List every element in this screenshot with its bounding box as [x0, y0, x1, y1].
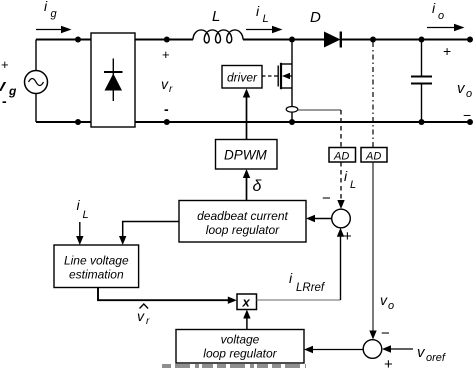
svg-text:−: − — [322, 190, 331, 207]
svg-text:L: L — [83, 209, 89, 221]
node cap top dot — [419, 37, 425, 43]
wire iLRref multiplier to summer — [257, 228, 345, 300]
wire top rail inductor-to-diode — [243, 39, 324, 41]
svg-text:−: − — [463, 107, 471, 123]
label vo plus right — [443, 43, 451, 59]
label iL feedback — [344, 168, 356, 191]
svg-text:v: v — [161, 76, 169, 92]
label voref — [417, 344, 446, 364]
voltage loop regulator U6 — [176, 330, 304, 364]
svg-text:o: o — [388, 300, 394, 312]
label vr minus — [164, 101, 169, 117]
current sensor — [286, 107, 298, 113]
node junction dot top-left — [75, 37, 81, 43]
wire top rail diode-to-right — [341, 39, 470, 41]
svg-text:Line voltage: Line voltage — [64, 254, 129, 268]
rectifier bridge B1 — [91, 33, 135, 127]
label vo right — [457, 80, 472, 100]
svg-text:L: L — [350, 179, 356, 191]
label iLRref — [289, 270, 326, 294]
svg-text:estimation: estimation — [69, 268, 124, 282]
label vr plus — [162, 47, 170, 62]
arrow voltage regulator to multiplier — [243, 310, 250, 330]
label S1 plus — [343, 228, 352, 245]
arrow voref into summer2 — [382, 345, 413, 352]
wire source left branch — [35, 40, 37, 123]
label D — [310, 9, 321, 26]
svg-text:loop regulator: loop regulator — [203, 347, 277, 361]
arrow DPWM to driver — [243, 89, 250, 140]
svg-text:+: + — [443, 43, 451, 59]
wire vr-hat to multiplier — [98, 288, 237, 304]
svg-text:x: x — [242, 295, 251, 310]
svg-text:g: g — [51, 8, 58, 20]
wire dash-dot vo tap to AD2 — [372, 42, 374, 148]
label vg plus — [1, 57, 9, 72]
wire bottom rail left segment — [36, 121, 91, 123]
svg-text:driver: driver — [227, 71, 258, 85]
svg-text:o: o — [438, 10, 444, 22]
label delta — [253, 178, 263, 195]
svg-text:o: o — [466, 88, 472, 100]
line voltage estimation U5 — [54, 245, 139, 288]
multiplier X — [237, 294, 257, 310]
svg-text:L: L — [263, 13, 269, 25]
arrow io — [427, 24, 465, 31]
deadbeat current loop regulator U4 — [179, 201, 306, 243]
scan artifact bottom strip — [162, 364, 306, 368]
wire deadbeat to line-voltage-estimation — [119, 222, 179, 246]
label vo feedback — [380, 292, 394, 312]
AD converter AD2 — [361, 148, 387, 163]
summer S2 voltage loop — [363, 340, 382, 359]
svg-text:+: + — [162, 47, 170, 62]
svg-text:g: g — [8, 84, 17, 98]
svg-text:v: v — [380, 292, 388, 308]
label S2 minus — [381, 325, 390, 342]
label L — [212, 8, 220, 25]
driver U2 — [222, 66, 262, 89]
label S1 minus — [322, 190, 331, 207]
label vg minus — [2, 93, 7, 109]
node output top-right dot — [467, 37, 473, 43]
svg-text:AD: AD — [365, 151, 381, 163]
transistor Q1 mosfet — [278, 40, 292, 123]
label iL input left — [77, 197, 89, 221]
label io — [432, 0, 444, 22]
svg-text:DPWM: DPWM — [224, 148, 267, 163]
node vr top dot — [164, 37, 170, 43]
arrow iL into estimation — [76, 222, 83, 245]
label vr — [161, 76, 173, 95]
wire sensor output — [298, 109, 341, 111]
AD converter AD1 — [329, 148, 356, 163]
label vo minus right — [463, 107, 471, 123]
node cap bottom dot — [419, 119, 425, 125]
svg-text:AD: AD — [333, 151, 349, 163]
node AD2 tap dot — [370, 37, 376, 43]
arrow iL — [246, 26, 283, 33]
diode D — [324, 32, 341, 48]
label vr-hat — [137, 304, 150, 327]
arrow ig — [36, 26, 72, 33]
svg-text:oref: oref — [426, 352, 446, 364]
wire top rail rectifier-to-inductor — [135, 39, 193, 41]
node vr bottom dot — [164, 119, 170, 125]
arrow delta deadbeat to DPWM — [243, 169, 250, 201]
wire dashed sensor to AD1 — [340, 110, 342, 148]
node junction dot bottom-left — [75, 119, 81, 125]
node output bottom-right dot — [467, 119, 473, 125]
svg-text:+: + — [343, 228, 352, 245]
wire bottom rail right segment — [135, 121, 470, 123]
arrow summer to deadbeat — [306, 215, 332, 222]
svg-text:loop regulator: loop regulator — [206, 223, 280, 237]
wire gate dashed — [262, 75, 278, 77]
svg-text:-: - — [164, 101, 169, 117]
wire vo AD2 to summer2 — [369, 162, 376, 340]
node mosfet drain dot — [289, 37, 295, 43]
svg-text:−: − — [381, 325, 390, 342]
svg-text:+: + — [384, 356, 393, 369]
svg-text:δ: δ — [253, 178, 263, 195]
summer S1 current loop — [332, 209, 351, 228]
label S2 plus — [384, 356, 393, 369]
svg-text:v: v — [137, 308, 145, 324]
inductor L — [193, 30, 243, 43]
label vg — [0, 76, 17, 98]
svg-text:-: - — [2, 93, 7, 109]
svg-text:LRref: LRref — [296, 282, 326, 294]
label iL top — [256, 3, 269, 25]
svg-text:D: D — [310, 9, 321, 26]
wire top rail left segment — [36, 39, 91, 41]
svg-text:voltage: voltage — [221, 333, 260, 347]
label ig — [44, 0, 58, 20]
svg-text:L: L — [212, 8, 220, 25]
capacitor C — [411, 40, 432, 123]
wire dashed iL AD1 to summer — [337, 162, 344, 209]
DPWM U3 — [216, 140, 278, 170]
source V1 vg — [25, 71, 48, 94]
svg-text:+: + — [1, 57, 9, 72]
arrow summer2 to voltage regulator — [304, 346, 363, 353]
svg-text:deadbeat current: deadbeat current — [197, 209, 288, 223]
node mosfet source dot — [289, 119, 295, 125]
